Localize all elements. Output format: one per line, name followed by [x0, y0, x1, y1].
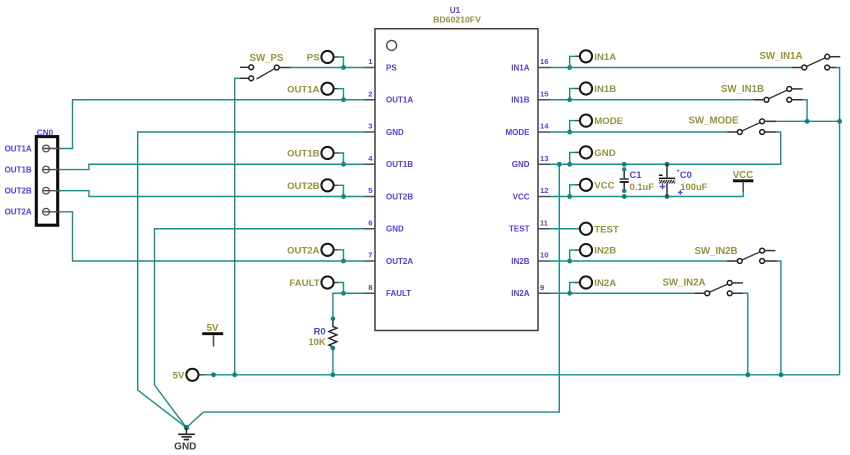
port TEST (inline) — [550, 223, 619, 236]
svg-text:0.1uF: 0.1uF — [630, 181, 655, 192]
svg-text:3: 3 — [368, 122, 372, 131]
svg-text:GND: GND — [594, 148, 615, 159]
junction GND rail tee — [557, 162, 562, 167]
junction at port OUT1B — [341, 162, 346, 167]
svg-text:OUT2B: OUT2B — [287, 181, 320, 192]
svg-text:IN1B: IN1B — [511, 96, 529, 105]
junction 5V rail / 5V symbol — [211, 372, 216, 377]
svg-text:OUT1B: OUT1B — [287, 149, 320, 160]
junction at port VCC — [567, 194, 572, 199]
junction at port OUT2A — [341, 259, 346, 264]
svg-text:PS: PS — [307, 53, 320, 64]
junction at port OUT1A — [341, 97, 346, 102]
wire 5V rail — [204, 374, 840, 376]
U1 pin 3 (GND) stub+number+name — [364, 122, 404, 137]
CN0 pin 2 (OUT1B) circle+lead+label — [5, 166, 61, 175]
power symbol VCC — [733, 170, 754, 192]
switch SW_IN2B — [694, 246, 777, 264]
U1 pin 9 (IN2A) stub+number+name — [511, 283, 550, 298]
R0 reference label — [314, 325, 326, 336]
svg-text:7: 7 — [368, 251, 372, 260]
port IN2A (right) — [570, 276, 617, 293]
CN0 pin 1 (OUT1A) circle+lead+label — [5, 144, 61, 153]
C1 reference label — [630, 169, 642, 180]
svg-text:MODE: MODE — [594, 116, 623, 127]
svg-text:R0: R0 — [314, 325, 326, 336]
wire net GND pin3 to ground — [138, 132, 364, 428]
U1 pin 8 (FAULT) stub+number+name — [364, 283, 411, 298]
power symbol 5V (upper) — [202, 323, 223, 347]
ground GND symbol — [174, 425, 196, 453]
wire net IN1A (pin16 to SW_IN1A) — [550, 67, 792, 69]
svg-text:OUT1A: OUT1A — [5, 144, 32, 153]
C0 value label 100uF — [680, 181, 707, 192]
junction sub-rail / SW_IN1B riser — [805, 119, 810, 124]
svg-text:IN2B: IN2B — [594, 246, 616, 257]
svg-text:OUT1A: OUT1A — [386, 96, 413, 105]
junction at port PS — [341, 65, 346, 70]
CN0 pin 3 (OUT2B) circle+lead+label — [5, 187, 61, 196]
svg-text:IN2A: IN2A — [594, 278, 616, 289]
U1 pin 7 (OUT2A) stub+number+name — [364, 251, 413, 266]
port GND (right) — [570, 146, 616, 164]
junction at port IN1A — [567, 65, 572, 70]
junction at port FAULT — [341, 291, 346, 296]
U1 pin 16 (IN1A) stub+number+name — [511, 57, 550, 72]
svg-text:100uF: 100uF — [680, 181, 707, 192]
U1 pin-1 index circle — [387, 40, 397, 50]
U1 pin 15 (IN1B) stub+number+name — [511, 89, 550, 104]
svg-text:SW_MODE: SW_MODE — [688, 116, 739, 127]
svg-text:IN1B: IN1B — [594, 84, 616, 95]
wire net OUT2B (CN0 pin3 to U1 pin5) — [61, 191, 365, 197]
junction 5V rail / R0 — [331, 372, 336, 377]
capacitor C1 — [620, 167, 629, 193]
junction GND rail / C0 — [665, 162, 670, 167]
wire net OUT2A (CN0 pin4 to U1 pin7) — [61, 212, 365, 261]
U1 pin 11 (TEST) stub+number+name — [509, 218, 550, 233]
junction at port IN1B — [567, 97, 572, 102]
port IN1A (right) — [570, 50, 617, 67]
svg-text:GND: GND — [386, 225, 404, 234]
switch SW_MODE — [688, 116, 776, 135]
svg-text:9: 9 — [540, 283, 544, 292]
port IN2B (right) — [570, 244, 617, 261]
svg-text:8: 8 — [368, 283, 372, 292]
svg-text:OUT2A: OUT2A — [386, 257, 413, 266]
U1 pin 14 (MODE) stub+number+name — [506, 122, 551, 137]
port IN1B (right) — [570, 82, 617, 99]
U1 pin 13 (GND) stub+number+name — [512, 154, 550, 169]
port OUT2B (left) — [287, 179, 343, 196]
svg-text:C0: C0 — [680, 169, 692, 180]
port PS (left) — [307, 51, 344, 68]
junction sub-rail / 5V riser — [837, 119, 842, 124]
junction 5V rail / SW_IN2A riser — [745, 372, 750, 377]
svg-text:IN2B: IN2B — [511, 257, 529, 266]
svg-text:IN2A: IN2A — [511, 289, 529, 298]
junction VCC rail / C1 — [622, 194, 627, 199]
U1 pin 2 (OUT1A) stub+number+name — [364, 89, 413, 104]
wire 5V rail right riser to switch rail — [836, 68, 840, 375]
port MODE (right) — [570, 115, 624, 133]
svg-text:IN1A: IN1A — [594, 52, 616, 63]
resistor R0 — [329, 317, 337, 351]
wire net MODE (pin14 to SW_MODE) — [550, 131, 727, 133]
svg-text:VCC: VCC — [513, 192, 530, 201]
svg-text:SW_PS: SW_PS — [250, 53, 284, 64]
svg-text:TEST: TEST — [509, 225, 530, 234]
wire R0 bottom to 5V rail — [332, 348, 334, 375]
U1 pin 10 (IN2B) stub+number+name — [511, 251, 550, 266]
svg-text:5V: 5V — [173, 370, 185, 381]
svg-text:2: 2 — [368, 89, 372, 98]
junction at port OUT2B — [341, 194, 346, 199]
svg-text:VCC: VCC — [594, 180, 614, 191]
port 5V (left of rail) — [173, 369, 205, 382]
wire SW_IN1B throw-B riser — [803, 100, 807, 122]
svg-text:OUT1A: OUT1A — [287, 84, 320, 95]
CN0 pin 4 (OUT2A) circle+lead+label — [5, 208, 61, 217]
U1 pin 1 (PS) stub+number+name — [364, 57, 397, 72]
C1 value label 0.1uF — [630, 181, 655, 192]
svg-text:BD60210FV: BD60210FV — [433, 15, 481, 25]
junction at port IN2B — [567, 259, 572, 264]
wire SW_PS throw-B to 5V rail — [235, 78, 240, 375]
svg-text:SW_IN1B: SW_IN1B — [721, 84, 764, 95]
svg-text:OUT2A: OUT2A — [287, 245, 320, 256]
switch SW_IN1A — [759, 51, 840, 70]
svg-text:15: 15 — [540, 89, 549, 98]
wire net OUT1B (CN0 pin2 to U1 pin4) — [61, 164, 365, 169]
svg-text:FAULT: FAULT — [386, 289, 411, 298]
U1 reference label — [450, 6, 461, 15]
junction GND rail / C1 — [622, 162, 627, 167]
switch SW_IN2A — [662, 277, 742, 295]
connector CN0 body — [36, 137, 57, 226]
U1 pin 12 (VCC) stub+number+name — [513, 186, 550, 201]
svg-text:FAULT: FAULT — [289, 278, 319, 289]
svg-text:OUT2B: OUT2B — [5, 187, 32, 196]
svg-text:13: 13 — [540, 154, 548, 163]
wire net GND right riser (pin13 to ground) — [186, 164, 559, 427]
junction VCC rail / C0 — [665, 194, 670, 199]
wire net IN2B (pin10 to SW_IN2B) — [550, 260, 727, 262]
junction 5V rail / SW_IN2B riser — [779, 372, 784, 377]
svg-text:12: 12 — [540, 186, 548, 195]
svg-text:GND: GND — [512, 160, 530, 169]
svg-text:OUT1B: OUT1B — [386, 160, 413, 169]
wire GND rail (pin13) — [550, 132, 781, 164]
U1 pin 4 (OUT1B) stub+number+name — [364, 154, 413, 169]
junction at port MODE — [567, 130, 572, 135]
U1 pin 5 (OUT2B) stub+number+name — [364, 186, 413, 201]
junction at port IN2A — [567, 291, 572, 296]
svg-text:OUT2A: OUT2A — [5, 208, 32, 217]
svg-text:CN0: CN0 — [37, 128, 54, 137]
wire net IN1B (pin15 to SW_IN1B) — [550, 99, 754, 101]
CN0 reference label — [37, 128, 54, 137]
svg-text:SW_IN1A: SW_IN1A — [759, 51, 802, 62]
port OUT1B (left) — [287, 147, 343, 164]
wire net GND pin6 to ground — [155, 229, 365, 428]
svg-text:PS: PS — [386, 63, 397, 72]
svg-text:14: 14 — [540, 122, 549, 131]
svg-text:VCC: VCC — [733, 170, 753, 181]
C0 plus mark — [678, 190, 683, 195]
R0 value label 10K — [308, 336, 325, 347]
C0 polarity mark tick — [677, 170, 679, 172]
junction 5V rail / SW_PS riser — [232, 372, 237, 377]
port OUT1A (left) — [287, 83, 343, 100]
svg-text:5V: 5V — [207, 323, 219, 334]
svg-text:TEST: TEST — [594, 224, 619, 235]
port VCC (right) — [570, 179, 615, 197]
wire net IN2A (pin9 to SW_IN2A) — [550, 292, 695, 294]
svg-text:11: 11 — [540, 218, 549, 227]
wire SW_IN2A throw-B riser — [742, 293, 748, 375]
wire net PS (SW_PS to U1 pin1) — [290, 67, 364, 69]
junction at port GND — [567, 162, 572, 167]
wire net OUT1A (CN0 pin1 to U1 pin2) — [61, 100, 365, 149]
svg-text:MODE: MODE — [506, 128, 531, 137]
port OUT2A (left) — [287, 244, 343, 261]
U1 value label BD60210FV — [433, 15, 481, 25]
svg-text:16: 16 — [540, 57, 548, 66]
wire VCC rail (pin12) — [550, 191, 743, 196]
wire SW_IN2B throw-B riser — [777, 261, 781, 375]
switch SW_IN1B — [721, 84, 803, 102]
svg-text:OUT1B: OUT1B — [5, 166, 32, 175]
wire switch 5V sub-rail — [776, 120, 840, 122]
U1 pin 6 (GND) stub+number+name — [364, 218, 404, 233]
svg-text:GND: GND — [174, 442, 196, 453]
svg-text:6: 6 — [368, 218, 372, 227]
svg-text:IN1A: IN1A — [511, 63, 529, 72]
svg-text:GND: GND — [386, 128, 404, 137]
C0 reference label — [680, 169, 692, 180]
svg-text:C1: C1 — [630, 169, 642, 180]
svg-text:SW_IN2A: SW_IN2A — [662, 277, 705, 288]
port FAULT (left) — [289, 276, 343, 293]
capacitor C0 — [659, 164, 675, 197]
wire net FAULT (U1 pin8 to R0) — [333, 293, 364, 319]
svg-text:OUT2B: OUT2B — [386, 192, 413, 201]
op-amp U1 BD60210FV body — [375, 29, 538, 331]
svg-text:SW_IN2B: SW_IN2B — [694, 246, 737, 257]
svg-text:10K: 10K — [308, 336, 325, 347]
svg-text:10: 10 — [540, 251, 548, 260]
switch SW_PS — [240, 53, 290, 81]
